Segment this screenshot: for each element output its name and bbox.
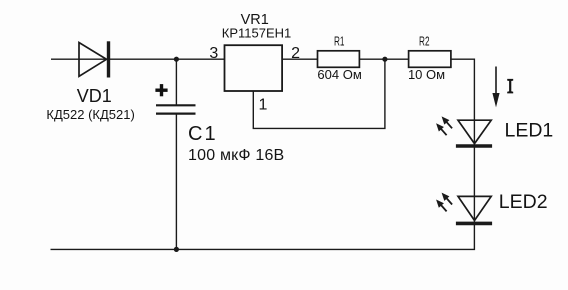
polarity plus sign — [155, 84, 167, 96]
wire VR1 pin 1 feedback path — [253, 59, 385, 128]
svg-text:LED1: LED1 — [505, 120, 554, 142]
LED2 — [456, 196, 492, 223]
LED1 — [456, 120, 492, 146]
LED2 emission arrow a — [439, 190, 455, 206]
current arrow I — [492, 67, 499, 108]
capacitor C1 — [156, 105, 196, 113]
svg-text:VD1: VD1 — [77, 86, 112, 106]
resistor R2 — [409, 51, 451, 68]
wire C1 bottom lead — [175, 115, 177, 250]
diode VD1 — [79, 41, 109, 77]
wire C1 top lead — [175, 59, 177, 104]
LED2 emission arrow b — [434, 197, 450, 213]
label I — [507, 79, 513, 94]
svg-text:100 мкФ 16В: 100 мкФ 16В — [188, 147, 284, 164]
wire VR1 pin 2 to R1 — [282, 58, 317, 60]
voltage regulator VR1 body — [225, 45, 283, 91]
wire R1 to R2 — [359, 58, 408, 60]
svg-text:LED2: LED2 — [499, 191, 548, 213]
svg-text:3: 3 — [209, 45, 218, 62]
svg-text:1: 1 — [259, 97, 268, 114]
LED1 emission arrow b — [434, 121, 450, 137]
resistor R1 — [318, 51, 360, 68]
svg-text:КД522 (КД521): КД522 (КД521) — [46, 107, 134, 122]
svg-text:604 Ом: 604 Ом — [317, 67, 361, 82]
wire input to VR1 pin 3 — [51, 58, 225, 60]
wire R2 to LED1 — [451, 59, 475, 146]
svg-text:10 Ом: 10 Ом — [408, 67, 445, 82]
svg-text:R2: R2 — [419, 35, 430, 49]
svg-text:C1: C1 — [188, 123, 218, 145]
svg-text:R1: R1 — [334, 35, 345, 49]
wire LED2 to bottom rail — [51, 223, 475, 249]
svg-text:КР1157ЕН1: КР1157ЕН1 — [222, 26, 292, 41]
junction node feedback — [382, 57, 387, 62]
junction node at C1 bottom — [174, 247, 179, 252]
junction node at C1 top — [174, 57, 179, 62]
wire LED1 to LED2 — [473, 146, 475, 223]
LED1 emission arrow a — [439, 114, 455, 130]
